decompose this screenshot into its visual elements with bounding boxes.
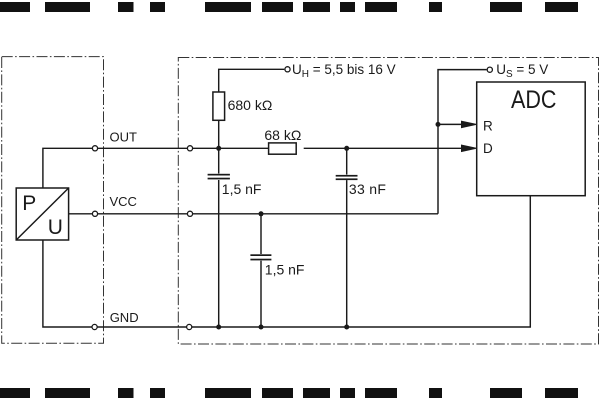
capacitor C2 <box>250 254 271 261</box>
sensor dashed enclosure <box>2 57 104 344</box>
wire cap1 branch <box>218 148 220 327</box>
top film bar <box>0 2 578 12</box>
svg-text:R: R <box>483 118 493 133</box>
op-amp/converter U1 ADC box <box>477 82 586 196</box>
wire cap3 branch <box>346 148 348 327</box>
wire VCC <box>69 213 438 215</box>
terminal UH <box>285 67 290 72</box>
terminal US <box>487 67 492 72</box>
junction OUT-R680 <box>216 146 221 151</box>
svg-text:ADC: ADC <box>511 86 557 114</box>
svg-text:GND: GND <box>110 310 139 325</box>
svg-text:68 kΩ: 68 kΩ <box>264 127 301 143</box>
terminal VCC ecu <box>187 211 192 216</box>
wire OUT left <box>43 148 268 188</box>
resistor R2 <box>269 143 297 154</box>
svg-text:P: P <box>22 192 36 215</box>
svg-text:VCC: VCC <box>110 194 137 209</box>
wire UH branch <box>219 69 285 148</box>
arrow into D pin <box>462 145 477 151</box>
wire OUT right to D <box>304 147 468 149</box>
svg-text:OUT: OUT <box>110 129 138 144</box>
svg-text:U: U <box>48 216 63 239</box>
junction GND-1 <box>216 325 221 330</box>
terminal VCC sensor <box>92 211 97 216</box>
svg-text:33 nF: 33 nF <box>349 181 386 197</box>
wire GND <box>43 196 530 327</box>
wire R branch <box>438 123 468 125</box>
capacitor C1 <box>208 174 230 181</box>
svg-text:680 kΩ: 680 kΩ <box>228 97 273 113</box>
ecu dashed enclosure <box>178 58 598 345</box>
junction GND-3 <box>344 325 349 330</box>
junction GND-2 <box>259 325 264 330</box>
resistor R1 <box>213 92 225 120</box>
svg-text:1,5 nF: 1,5 nF <box>265 262 305 278</box>
terminal GND sensor <box>92 324 97 329</box>
terminal OUT sensor <box>92 146 97 151</box>
bottom film bar <box>0 388 578 398</box>
junction R line <box>436 122 441 127</box>
capacitor C3 <box>336 175 358 181</box>
junction OUT-C3 <box>344 146 349 151</box>
terminal GND ecu <box>187 324 192 329</box>
wire cap2 branch <box>260 214 262 327</box>
pressure sensor B1 P/U box <box>16 188 68 240</box>
svg-text:D: D <box>483 141 493 156</box>
svg-text:1,5 nF: 1,5 nF <box>222 181 262 197</box>
wire supply vertical <box>438 70 487 214</box>
arrow into R pin <box>462 121 477 127</box>
junction VCC-C2 <box>259 211 264 216</box>
terminal OUT ecu <box>187 146 192 151</box>
